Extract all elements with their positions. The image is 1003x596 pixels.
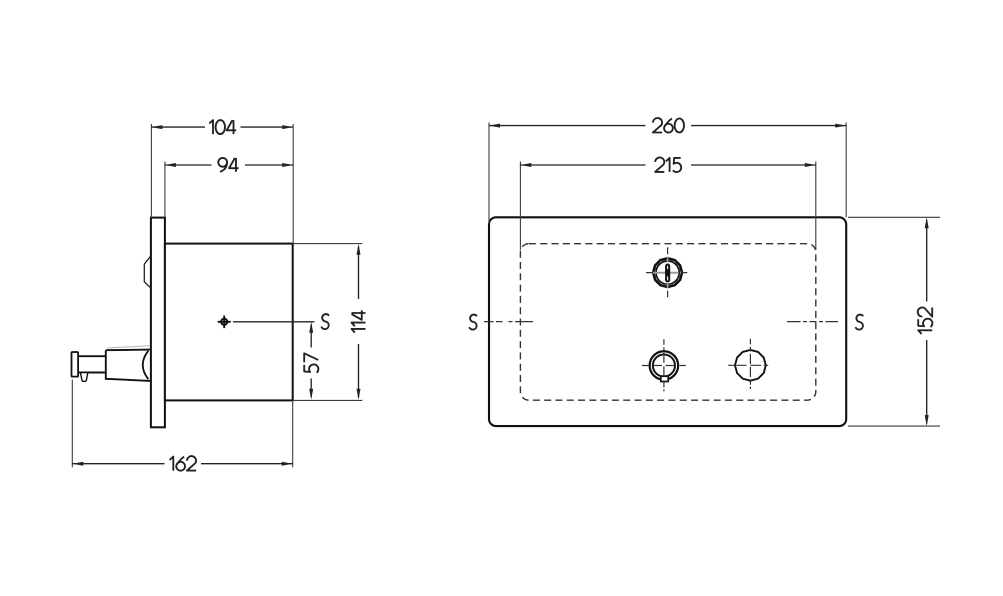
- bottom-left valve inner circle: [653, 354, 675, 376]
- cone-to-plate arc: [143, 351, 149, 379]
- drip nozzle tab: [81, 373, 88, 382]
- dimension 114: arrows: [357, 244, 361, 400]
- S leader line: [233, 321, 315, 323]
- spout tube: [78, 356, 106, 372]
- recessed body box (side view): [165, 244, 293, 401]
- bottom-right spout hole crosshair: [728, 364, 768, 366]
- recess opening (dashed rounded rect): [520, 244, 815, 401]
- left S centerline: [484, 321, 533, 323]
- dimension 162: dim line: [72, 463, 292, 465]
- dimension 152: extension lines: [848, 217, 940, 426]
- top valve inner circle: [656, 261, 679, 284]
- dimension 94: arrows: [165, 163, 293, 167]
- dimension 152: dim line: [926, 220, 928, 423]
- dimension 104: extension lines: [151, 124, 293, 244]
- dimension 215: extension lines: [520, 162, 815, 251]
- top valve outer knurled ring: [653, 258, 682, 287]
- dimension 215: dim line: [520, 164, 815, 166]
- dimension 260: arrows: [489, 124, 846, 128]
- bottom-left valve crosshair: [642, 365, 686, 367]
- dimension 57: arrows: [309, 322, 313, 400]
- spring clip bump on back of plate: [144, 256, 151, 288]
- dimension 104: arrows: [151, 125, 293, 129]
- dimension 114: text (rotated): [352, 310, 366, 332]
- dimension 94: dim line: [165, 164, 293, 166]
- dimension 215: text: [655, 157, 681, 172]
- dimension 57: dim line: [310, 325, 312, 398]
- extension lines for 114/57 (body top & bottom extended): [293, 244, 363, 401]
- bottom-right spout hole (12-gon): [735, 350, 766, 381]
- left S label: [469, 315, 477, 330]
- dimension 152: arrows: [925, 217, 929, 426]
- dimension 215: arrows: [520, 163, 815, 167]
- S target marker: [221, 319, 227, 325]
- dimension 57: text (rotated): [304, 353, 318, 372]
- dimension 260: dim line: [489, 125, 846, 127]
- dimension 260: extension lines: [489, 123, 846, 225]
- right S label: [856, 315, 864, 330]
- dimension 162: arrows: [72, 462, 292, 466]
- dimension 104: dim line: [151, 126, 293, 128]
- spout tip flange: [72, 352, 79, 377]
- dimension 94: text: [218, 158, 238, 172]
- top valve slot: [666, 265, 669, 282]
- bottom-left valve outer circle: [650, 351, 679, 380]
- bottom-left valve bottom tab: [661, 376, 668, 381]
- S label (side view): [321, 314, 329, 329]
- spout cone faint silhouette line: [108, 346, 151, 348]
- dimension 152: text (rotated): [918, 308, 933, 335]
- right S centerline: [787, 321, 838, 323]
- top valve crosshair: [646, 272, 687, 274]
- spout cone: [106, 350, 151, 381]
- dimension 162: extension lines: [72, 380, 292, 468]
- wall plate (escutcheon, side view): [151, 218, 165, 428]
- outer face plate (rounded rect): [489, 217, 846, 426]
- dimension 104: text: [209, 120, 236, 134]
- dimension 114: dim line: [358, 247, 360, 398]
- dimension 94: extension line (left): [164, 162, 166, 218]
- dimension 260: text: [653, 118, 684, 133]
- dimension 162: text: [170, 456, 197, 471]
